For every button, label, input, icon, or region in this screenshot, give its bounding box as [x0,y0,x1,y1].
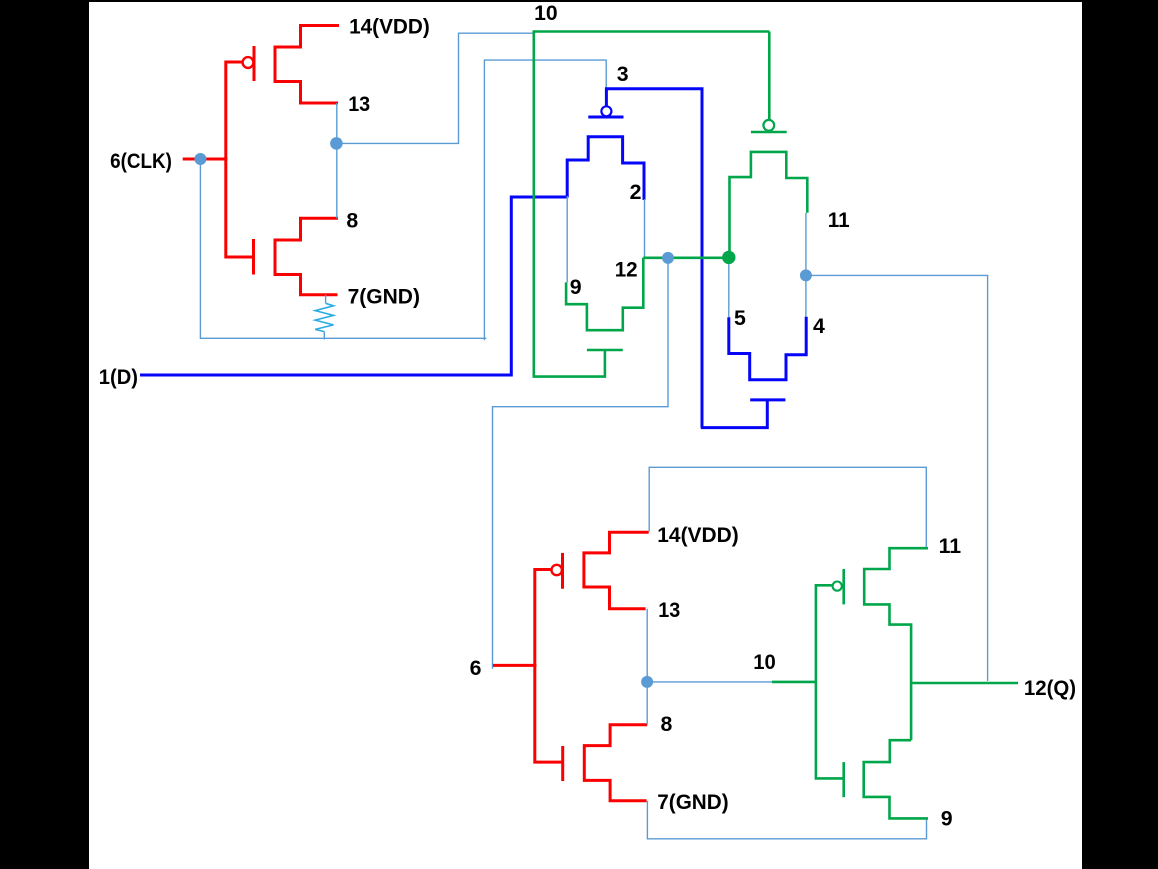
node master output dot [800,269,812,281]
transistor Q5 PMOS gate bar [751,131,787,134]
transistor Q7 PMOS body pins 14-13 [584,532,649,609]
svg-text:5: 5 [734,306,746,330]
svg-text:8: 8 [661,712,673,736]
wire output 12(Q) [911,682,1018,685]
wire node 10 bottom link [647,681,772,683]
transistor Q7 PMOS gate bar [561,553,564,589]
wire input stem of clock inverter [226,62,254,257]
wire input 6 [493,664,537,667]
wire VDD rail bottom section [649,467,926,548]
svg-text:3: 3 [617,62,629,86]
node clock-inverter output dot [330,137,343,150]
svg-text:1(D): 1(D) [99,365,138,389]
svg-text:4: 4 [813,314,825,338]
svg-text:10: 10 [753,650,776,674]
wire Q6 gate stem to node 3 [701,400,768,428]
wire node 13-8 vertical at inverter output [336,103,338,218]
wire 1(D) input [140,197,567,375]
transistor Q3 PMOS body pins 1-2 [567,137,644,200]
transistor Q9 PMOS gate bar [842,569,845,604]
svg-text:10: 10 [534,1,558,25]
wire slave inverter output vertical [646,609,648,725]
node slave inverter output dot [641,676,653,688]
svg-text:9: 9 [941,807,953,831]
transistor Q1 PMOS body pins 14-13 [275,26,339,104]
svg-text:14(VDD): 14(VDD) [657,523,738,547]
wire input 10 green link [772,681,816,684]
resistor stub bottom [323,332,325,340]
transistor Q5 PMOS body pins [730,152,808,255]
transistor Q10 NMOS body pins output down to 9 [864,740,928,818]
svg-text:7(GND): 7(GND) [348,284,420,308]
transistor Q5 PMOS gate bubble [763,120,774,131]
svg-text:8: 8 [346,209,358,233]
svg-text:14(VDD): 14(VDD) [349,15,430,39]
wire input stem of bottom inverter [535,570,563,763]
wire node 10 stem to Q5 bubble [768,32,771,121]
svg-text:6(CLK): 6(CLK) [110,149,172,173]
resistor R1 zigzag [315,303,333,331]
svg-text:2: 2 [630,180,642,204]
resistor stub top [325,295,327,304]
wire right side gap of left TG [644,199,646,259]
node TG-TG green dot [722,251,735,264]
transistor Q2 NMOS body pins 8-7 [275,218,338,294]
wire node 3: bubble stem, over and long drop to Q6 gate [606,89,702,428]
svg-text:12(Q): 12(Q) [1024,676,1076,700]
svg-text:13: 13 [658,598,680,622]
wire node 12 link to right TG [643,256,729,259]
transistor Q4 NMOS body pins 9-12 (green) [566,258,643,330]
wire node 12 feedback down-left to slave input [493,258,669,669]
node CLK junction dot [194,153,206,165]
wire node 10 rail: top rail, left drop, Q4 gate stem [534,32,770,377]
wire CLK net: junction down, across bottom, up and over to node 3 [200,60,606,340]
wire inverter output to node 10 rail [336,33,533,143]
svg-text:9: 9 [570,275,582,299]
svg-text:6: 6 [470,656,482,680]
transistor Q4 NMOS gate bar [587,349,623,352]
node 12 dot [662,252,674,264]
transistor Q10 NMOS gate bar [842,762,845,797]
wire left side gap of right TG [728,257,730,317]
svg-text:11: 11 [939,534,962,558]
wire input stem of green inverter [816,585,844,778]
transistor Q6 NMOS body pins 5-4 [729,317,806,380]
transistor Q8 NMOS gate bar [561,746,564,781]
transistor Q1 PMOS gate bubble [243,57,254,68]
transistor Q9 PMOS body pins 11 down to output [864,548,928,740]
svg-text:7(GND): 7(GND) [657,790,728,814]
wire right side gap of right TG [805,213,807,317]
wire CLK input [183,158,228,161]
transistor Q7 PMOS gate bubble [552,565,562,575]
wire left side gap of left TG [566,196,568,282]
svg-text:12: 12 [615,258,638,282]
svg-text:13: 13 [348,92,370,116]
transistor Q9 PMOS gate bubble [833,582,842,591]
transistor Q1 PMOS gate bar [253,46,256,81]
wire GND rail bottom section [647,801,926,839]
transistor Q2 NMOS gate bar [252,239,255,275]
transistor Q3 PMOS gate bar [588,116,623,119]
transistor Q6 NMOS gate bar [750,398,785,401]
wire master output to Q line [806,275,988,681]
transistor Q3 PMOS gate bubble [601,106,611,116]
svg-text:11: 11 [828,208,850,232]
transistor Q8 NMOS body pins 8-7 [584,725,647,801]
